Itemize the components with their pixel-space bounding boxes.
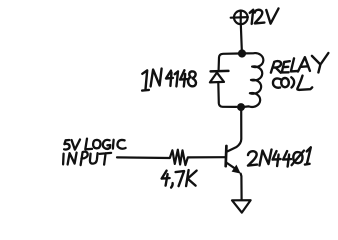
wire bottom node to collector <box>228 107 242 151</box>
diode D1 1N4148 (anode triangle) <box>210 73 224 83</box>
label INPUT <box>63 152 111 166</box>
wire emitter to ground <box>240 174 243 200</box>
wire from supply to top node <box>241 24 242 50</box>
label 2N4401 <box>248 147 311 166</box>
node top junction <box>238 49 246 57</box>
label 4,7K <box>162 170 197 188</box>
power symbol +12V supply <box>231 11 248 25</box>
label 1N4148 <box>142 69 196 91</box>
label 12V <box>250 9 279 24</box>
diode D1 1N4148 (cathode bar) <box>211 70 229 73</box>
relay coil L1 <box>244 53 263 107</box>
label COIL <box>273 76 312 90</box>
node bottom junction <box>237 103 245 111</box>
label RELAY <box>271 53 329 73</box>
ground <box>232 200 251 212</box>
label 5V LOGIC <box>64 139 126 150</box>
wire input to base with resistor R1 4.7K zigzag <box>117 150 225 165</box>
wire diode to bottom node <box>218 82 236 107</box>
wire top node to diode branch <box>219 54 239 70</box>
transistor Q1 2N4401 base bar <box>224 146 227 166</box>
transistor Q1 emitter with arrow <box>226 163 236 170</box>
